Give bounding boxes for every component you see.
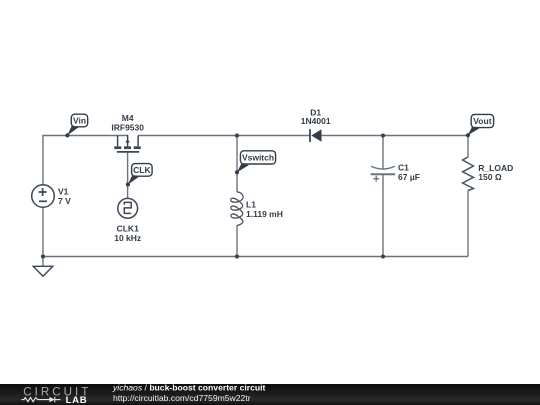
logo squiggle resistor-diode (22, 397, 61, 402)
wire MOSFET gate to clock (127, 153, 129, 199)
wire top rail left segment (43, 135, 128, 137)
wire C1 lower (382, 175, 384, 257)
svg-text:1.119 mH: 1.119 mH (246, 209, 283, 219)
svg-text:yichaos / buck-boost converter: yichaos / buck-boost converter circuit (112, 383, 265, 393)
svg-text:Vout: Vout (473, 116, 491, 126)
C1 labels (398, 162, 420, 182)
transistor M4 (P-MOSFET IRF9530) (114, 135, 140, 152)
footer bar (0, 384, 540, 405)
svg-text:M4: M4 (122, 113, 134, 123)
wire bottom rail (43, 256, 468, 258)
CLK1 labels (114, 224, 141, 243)
svg-text:10 kHz: 10 kHz (114, 233, 141, 243)
wire Vswitch upper (236, 136, 238, 192)
junction Vswitch top (235, 133, 239, 137)
M4 labels (111, 113, 144, 133)
svg-text:http://circuitlab.com/cd7759m5: http://circuitlab.com/cd7759m5w22tr (113, 393, 251, 403)
clock source CLK1 (118, 198, 138, 218)
svg-text:CLK: CLK (133, 165, 151, 175)
svg-text:67 µF: 67 µF (398, 172, 420, 182)
L1 labels (246, 200, 283, 219)
voltage source V1 (32, 185, 55, 208)
V1 value labels (58, 187, 71, 207)
capacitor C1 (371, 166, 395, 181)
wire R_LOAD lower (467, 191, 469, 257)
resistor R_LOAD (463, 157, 474, 191)
wire C1 upper (382, 136, 384, 170)
junction C1 top (381, 133, 385, 137)
junction Vswitch bottom (235, 254, 239, 258)
wire left rail lower (42, 207, 44, 256)
svg-text:V1: V1 (58, 187, 69, 197)
node Vin label (65, 114, 87, 137)
inductor L1 (231, 192, 243, 226)
wire Vswitch lower (236, 226, 238, 257)
diode D1 (310, 129, 322, 142)
node Vswitch label (235, 151, 276, 175)
junction ground (41, 254, 45, 258)
R_LOAD labels (478, 163, 513, 182)
svg-text:7 V: 7 V (58, 196, 71, 206)
svg-text:1N4001: 1N4001 (301, 116, 331, 126)
node CLK label (126, 164, 152, 187)
svg-text:C1: C1 (398, 162, 409, 172)
ground (33, 266, 53, 276)
svg-text:150 Ω: 150 Ω (478, 172, 502, 182)
svg-text:Vswitch: Vswitch (242, 152, 274, 162)
wire R_LOAD upper (467, 136, 469, 158)
wire top rail right segment (321, 135, 468, 137)
D1 labels (301, 107, 331, 126)
junction C1 bottom (381, 254, 385, 258)
node Vout label (466, 114, 494, 137)
wire left rail upper (42, 135, 44, 185)
wire top rail middle segment (138, 135, 310, 137)
svg-text:Vin: Vin (73, 116, 86, 126)
svg-text:LAB: LAB (66, 395, 88, 405)
svg-text:IRF9530: IRF9530 (111, 123, 144, 133)
wire ground stub (42, 257, 44, 267)
